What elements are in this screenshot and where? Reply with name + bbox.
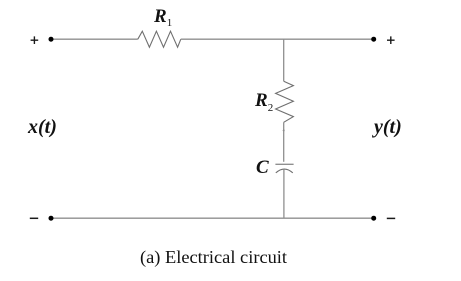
plus sign top-left <box>31 36 39 44</box>
capacitor C top plate <box>275 163 293 165</box>
capacitor C bottom curved plate <box>276 169 293 173</box>
node dot top-right <box>371 37 376 42</box>
resistor R1 <box>138 31 181 47</box>
node dot bottom-left <box>49 216 54 221</box>
wire vertical upper (top wire to R2) <box>283 39 285 81</box>
wire R2 to capacitor <box>283 122 285 162</box>
label R1 <box>154 6 172 29</box>
minus sign bottom-right <box>387 217 395 219</box>
label R2 <box>255 90 273 114</box>
resistor R2 <box>276 81 294 122</box>
label x(t) <box>28 116 57 139</box>
junction tick on vertical wire <box>283 129 285 131</box>
wire top-left segment <box>51 38 138 40</box>
wire bottom <box>51 217 374 219</box>
caption (a) Electrical circuit <box>140 247 287 268</box>
wire top-right segment <box>181 38 374 40</box>
minus sign bottom-left <box>30 217 38 219</box>
wire capacitor to bottom wire <box>283 169 285 218</box>
node dot top-left <box>49 37 54 42</box>
label C <box>256 157 269 179</box>
node dot bottom-right <box>371 216 376 221</box>
plus sign top-right <box>387 36 395 44</box>
label y(t) <box>374 116 402 139</box>
